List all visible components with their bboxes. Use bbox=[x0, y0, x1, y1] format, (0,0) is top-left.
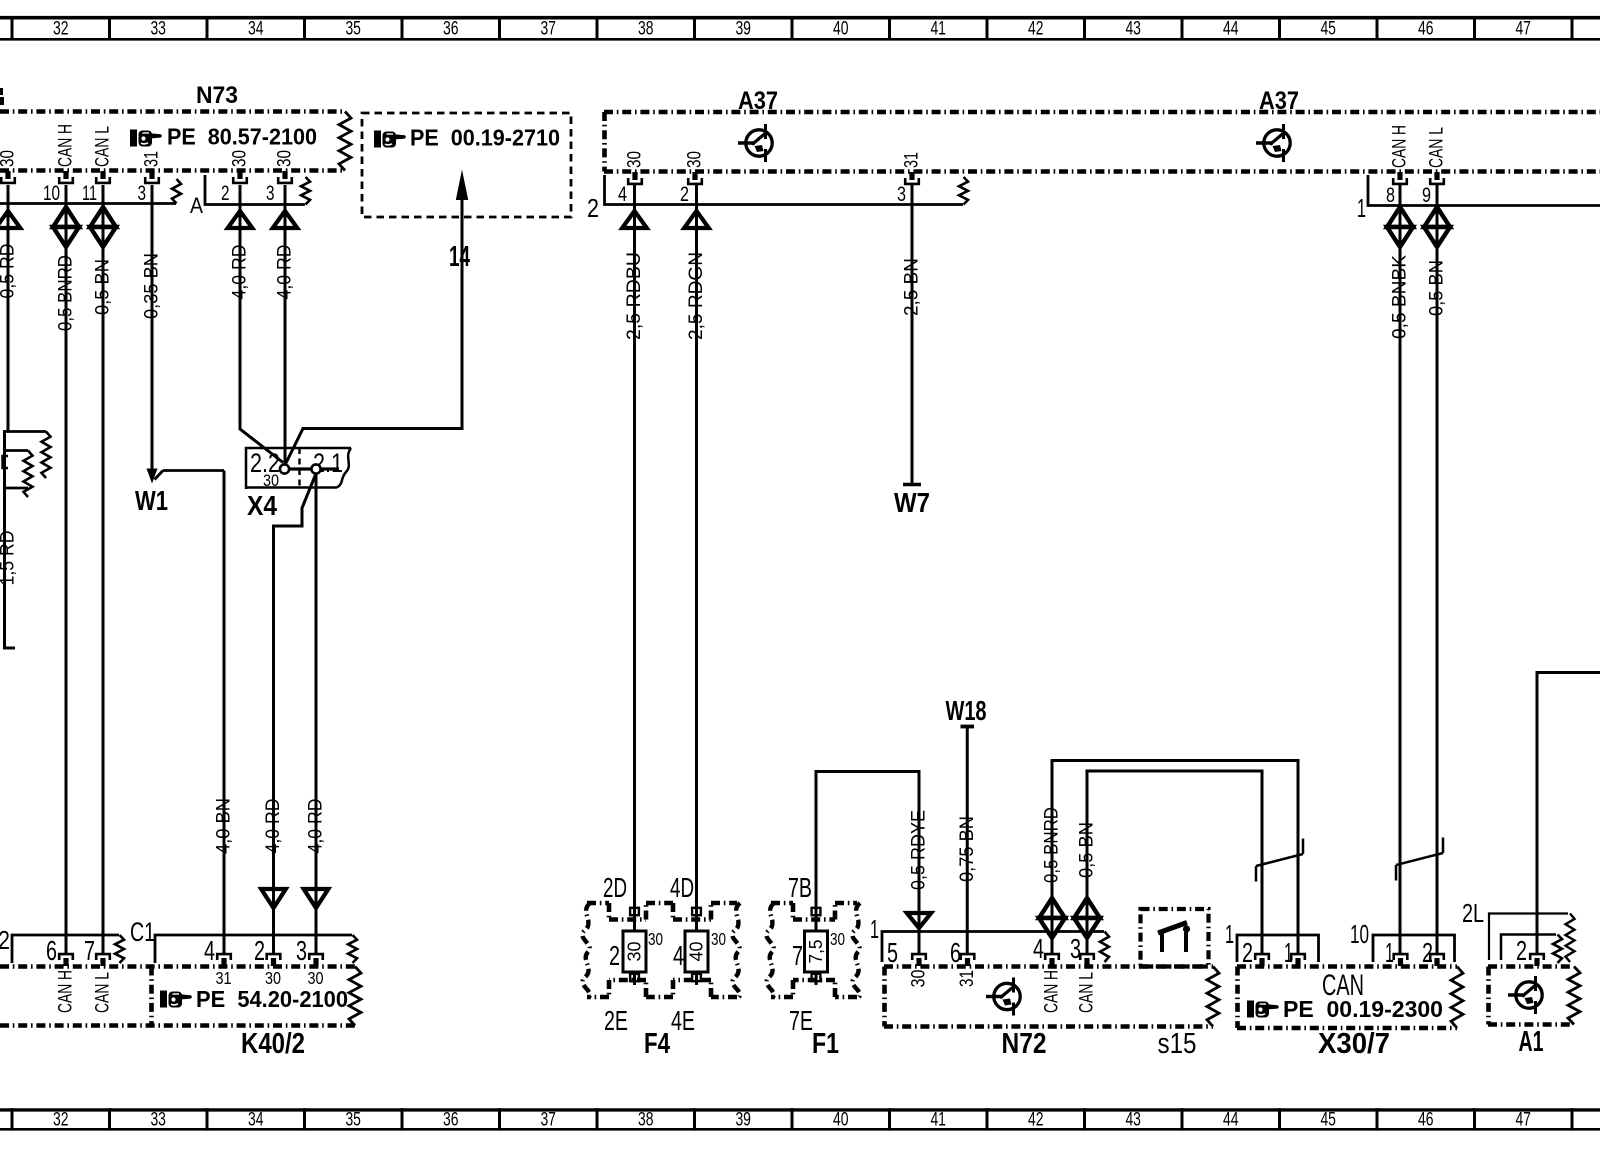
fuse F4 40A (4D/4E) bbox=[670, 872, 726, 1036]
svg-text:3: 3 bbox=[266, 181, 275, 205]
svg-text:5: 5 bbox=[887, 937, 898, 968]
fuse block F1 outline bbox=[766, 903, 860, 997]
svg-text:34: 34 bbox=[248, 1109, 264, 1131]
svg-text:2: 2 bbox=[1242, 937, 1253, 968]
control unit A37 bbox=[604, 87, 1600, 172]
partial label at top left page edge bbox=[0, 88, 4, 105]
N73 pin terminal CAN L at x=103 bbox=[92, 126, 114, 183]
svg-text:N72: N72 bbox=[1002, 1028, 1047, 1060]
svg-text:CAN H: CAN H bbox=[55, 970, 77, 1013]
svg-text:0,5 BN: 0,5 BN bbox=[1426, 260, 1448, 316]
svg-text:2L: 2L bbox=[1462, 898, 1484, 928]
svg-text:40: 40 bbox=[687, 942, 707, 962]
X30/7 terminal pins bracket 1 bbox=[1255, 954, 1305, 966]
svg-text:30: 30 bbox=[263, 472, 279, 490]
svg-text:2: 2 bbox=[221, 181, 230, 205]
svg-text:44: 44 bbox=[1223, 18, 1239, 40]
svg-text:C1: C1 bbox=[130, 917, 155, 947]
svg-text:4: 4 bbox=[204, 935, 215, 966]
svg-text:6: 6 bbox=[46, 935, 57, 966]
N73 pin terminal 30 at x=285 bbox=[274, 150, 296, 183]
svg-text:s15: s15 bbox=[1158, 1028, 1197, 1060]
svg-text:31: 31 bbox=[216, 968, 232, 988]
svg-text:2: 2 bbox=[680, 182, 689, 206]
svg-text:4,0 BN: 4,0 BN bbox=[213, 798, 235, 854]
svg-text:30: 30 bbox=[684, 151, 706, 168]
wire 0,5 BN from A37 pin 9 to X30/7 bbox=[1424, 185, 1450, 954]
A37 pin numbers 4 2 3 8 9 bbox=[618, 182, 1431, 207]
svg-text:11: 11 bbox=[82, 181, 97, 205]
svg-text:31: 31 bbox=[901, 152, 923, 168]
svg-text:4,0 RD: 4,0 RD bbox=[229, 245, 251, 300]
K40/2 connector bracket C1 bbox=[12, 917, 155, 966]
svg-text:42: 42 bbox=[1028, 1109, 1044, 1131]
switch s15 bbox=[1141, 909, 1209, 1060]
svg-text:38: 38 bbox=[638, 1109, 654, 1131]
svg-text:36: 36 bbox=[443, 18, 459, 40]
CAN distributor X30/7 box bbox=[1237, 967, 1463, 1061]
svg-text:CAN L: CAN L bbox=[92, 126, 114, 167]
svg-text:35: 35 bbox=[345, 1109, 361, 1131]
top ruler bbox=[0, 16, 1600, 41]
svg-text:2,5 BN: 2,5 BN bbox=[901, 258, 923, 316]
svg-text:4D: 4D bbox=[670, 872, 694, 903]
svg-text:CAN L: CAN L bbox=[1426, 127, 1448, 168]
svg-text:1: 1 bbox=[1357, 193, 1366, 223]
svg-text:32: 32 bbox=[53, 18, 69, 40]
wire 14 to PE 00.19-2710 bbox=[286, 170, 470, 464]
svg-text:CAN H: CAN H bbox=[55, 124, 77, 167]
svg-text:43: 43 bbox=[1125, 18, 1141, 40]
svg-text:31: 31 bbox=[141, 151, 163, 167]
svg-text:30: 30 bbox=[308, 968, 324, 988]
fuse block F4 outline bbox=[582, 903, 740, 997]
svg-text:W7: W7 bbox=[894, 487, 930, 518]
svg-text:0,5 BN: 0,5 BN bbox=[1076, 822, 1098, 878]
svg-text:9: 9 bbox=[1422, 183, 1431, 207]
svg-text:4,0 RD: 4,0 RD bbox=[262, 799, 284, 854]
svg-text:CAN H: CAN H bbox=[1389, 125, 1411, 168]
svg-text:30: 30 bbox=[908, 969, 930, 987]
terminal block X4 bbox=[246, 448, 351, 521]
A37 pin terminal 30 at x=635 bbox=[624, 151, 646, 184]
wire 4,0 RD from N73 pin 3 to X4 bbox=[273, 185, 298, 464]
svg-text:47: 47 bbox=[1515, 18, 1531, 40]
svg-text:2: 2 bbox=[0, 925, 10, 955]
ground lead W18 bbox=[946, 695, 987, 954]
svg-text:30: 30 bbox=[265, 968, 281, 988]
K40/2 connector bracket (pins 4,2,3) bbox=[155, 935, 357, 966]
svg-text:30: 30 bbox=[624, 151, 646, 168]
svg-text:44: 44 bbox=[1223, 1109, 1239, 1131]
svg-text:1: 1 bbox=[1284, 937, 1293, 968]
svg-text:42: 42 bbox=[1028, 18, 1044, 40]
N73 connector bracket A bbox=[0, 179, 203, 218]
svg-text:33: 33 bbox=[150, 18, 166, 40]
svg-text:7: 7 bbox=[792, 940, 803, 971]
svg-text:30: 30 bbox=[229, 150, 251, 167]
svg-text:2: 2 bbox=[609, 940, 620, 971]
wire 0,5 BNRD CAN H from N72 pin 4 to X30/7 bbox=[1039, 761, 1298, 954]
N73 pin terminal 31 at x=152 bbox=[141, 151, 163, 183]
N73 connector bracket (pins 2,3) bbox=[205, 175, 310, 205]
svg-text:A1: A1 bbox=[1519, 1026, 1544, 1058]
N72 pin terminal CAN L bbox=[1076, 954, 1098, 1013]
svg-text:33: 33 bbox=[150, 1109, 166, 1131]
wire 0,5 BN CAN L from N72 pin 3 to X30/7 bbox=[1074, 771, 1262, 954]
N72 pin terminal 30 bbox=[908, 954, 930, 987]
bottom ruler bbox=[0, 1108, 1600, 1130]
off-page connector stubs at left edge bbox=[3, 432, 51, 498]
svg-text:N73: N73 bbox=[196, 82, 238, 109]
svg-text:30: 30 bbox=[0, 150, 19, 167]
svg-text:34: 34 bbox=[248, 18, 264, 40]
svg-text:4E: 4E bbox=[671, 1005, 695, 1036]
N73 pin numbers 10 11 3 2 3 bbox=[43, 181, 275, 205]
ground point W1 bbox=[135, 469, 224, 517]
svg-text:41: 41 bbox=[930, 1109, 946, 1131]
svg-text:PE 00.19-2300: PE 00.19-2300 bbox=[1283, 996, 1443, 1022]
wire 0,5 BNRD (CAN H) from N73 pin 10 to K40/2 pin 6 bbox=[53, 185, 79, 954]
svg-text:36: 36 bbox=[443, 1109, 459, 1131]
svg-text:2: 2 bbox=[1422, 937, 1433, 968]
svg-text:0,75 BN: 0,75 BN bbox=[956, 816, 978, 882]
wire 0,5 RD from N73 pin 30 bbox=[0, 185, 20, 432]
svg-text:30: 30 bbox=[274, 150, 296, 167]
N72 pin numbers 5 6 4 3 bbox=[887, 933, 1081, 968]
A37 pin terminal CAN H at x=1400 bbox=[1389, 125, 1411, 184]
svg-text:K40/2: K40/2 bbox=[241, 1028, 305, 1060]
svg-text:4: 4 bbox=[673, 940, 684, 971]
svg-text:43: 43 bbox=[1125, 1109, 1141, 1131]
svg-text:8: 8 bbox=[1386, 183, 1395, 207]
wire 1,5 RD at left edge bbox=[0, 432, 19, 649]
svg-text:0,5 RD: 0,5 RD bbox=[0, 244, 19, 299]
K40/2 pin terminal CAN L bbox=[92, 954, 114, 1013]
svg-text:CAN L: CAN L bbox=[1076, 972, 1098, 1013]
K40/2 pin terminals 31 30 30 bbox=[216, 954, 324, 988]
svg-text:3: 3 bbox=[138, 181, 147, 205]
svg-text:40: 40 bbox=[833, 1109, 849, 1131]
N72 pin terminal 31 bbox=[956, 954, 978, 987]
svg-text:PE 54.20-2100: PE 54.20-2100 bbox=[196, 986, 348, 1012]
svg-text:A: A bbox=[190, 193, 203, 218]
svg-text:0,5 BN: 0,5 BN bbox=[92, 259, 114, 315]
N73 pin terminal CAN H at x=66 bbox=[55, 124, 77, 183]
svg-text:46: 46 bbox=[1418, 1109, 1434, 1131]
svg-text:40: 40 bbox=[833, 18, 849, 40]
ground point W7 bbox=[894, 485, 930, 519]
svg-text:38: 38 bbox=[638, 18, 654, 40]
svg-text:0,5 BNRD: 0,5 BNRD bbox=[55, 255, 77, 331]
svg-text:W18: W18 bbox=[946, 695, 987, 726]
svg-text:0,5 RDYE: 0,5 RDYE bbox=[908, 810, 930, 890]
twisted pair marking right bbox=[1396, 838, 1443, 881]
K40/2 partial pin label 2 at page edge bbox=[0, 925, 10, 955]
svg-text:7E: 7E bbox=[789, 1005, 813, 1036]
svg-text:2E: 2E bbox=[604, 1005, 628, 1036]
svg-text:0,5 BNRD: 0,5 BNRD bbox=[1041, 807, 1063, 883]
svg-text:CAN L: CAN L bbox=[92, 972, 114, 1013]
svg-text:2,5 RDBU: 2,5 RDBU bbox=[623, 252, 645, 340]
X30/7 terminal pins bracket 10 bbox=[1394, 954, 1444, 966]
svg-text:37: 37 bbox=[540, 1109, 556, 1131]
fuse F4 30A (2D/2E) bbox=[603, 872, 663, 1036]
svg-text:10: 10 bbox=[43, 181, 60, 205]
svg-text:3: 3 bbox=[296, 935, 307, 966]
svg-text:30: 30 bbox=[648, 929, 663, 949]
N73 pin terminal 30 at x=240 bbox=[229, 150, 251, 183]
svg-text:2D: 2D bbox=[603, 872, 627, 903]
svg-text:X4: X4 bbox=[247, 490, 277, 521]
svg-text:2: 2 bbox=[1516, 935, 1527, 966]
svg-text:4: 4 bbox=[618, 182, 627, 206]
svg-text:39: 39 bbox=[735, 18, 751, 40]
fuse and relay module K40/2 box bbox=[0, 967, 361, 1061]
wire 0,5 BNBK from A37 pin 8 to X30/7 bbox=[1387, 185, 1413, 954]
svg-text:F4: F4 bbox=[644, 1028, 670, 1060]
svg-text:F1: F1 bbox=[812, 1028, 839, 1060]
svg-text:7: 7 bbox=[84, 935, 95, 966]
wire 4,0 RD from X4 terminal 30 to K40/2 pin 2 bbox=[261, 474, 316, 954]
A37 pin terminal 30 at x=695 bbox=[684, 151, 706, 184]
wire 0,35 BN from N73 pin 3 to ground W1 bbox=[141, 185, 163, 471]
svg-text:1: 1 bbox=[1225, 919, 1234, 949]
svg-text:10: 10 bbox=[1350, 919, 1369, 949]
svg-text:2: 2 bbox=[587, 193, 599, 223]
svg-text:7B: 7B bbox=[788, 872, 812, 903]
svg-text:4,0 RD: 4,0 RD bbox=[305, 799, 327, 854]
svg-text:2: 2 bbox=[254, 935, 265, 966]
svg-text:30: 30 bbox=[830, 929, 845, 949]
svg-text:46: 46 bbox=[1418, 18, 1434, 40]
A37 pin terminal CAN L at x=1437 bbox=[1426, 127, 1448, 184]
N73 pin terminal 30 at x=8 bbox=[0, 150, 19, 183]
instrument cluster A1 connector 2L bbox=[1462, 898, 1575, 966]
svg-text:0,5 BNBK: 0,5 BNBK bbox=[1389, 255, 1411, 339]
reference box PE 00.19-2710 bbox=[362, 113, 571, 217]
svg-text:35: 35 bbox=[345, 18, 361, 40]
svg-text:47: 47 bbox=[1515, 1109, 1531, 1131]
svg-text:4,0 RD: 4,0 RD bbox=[274, 245, 296, 300]
twisted pair marking left bbox=[1256, 839, 1303, 882]
svg-text:30: 30 bbox=[625, 942, 645, 962]
svg-text:39: 39 bbox=[735, 1109, 751, 1131]
wire 4,0 RD from N73 pin 2 to X4 bbox=[228, 185, 283, 463]
wire 0,5 RDYE from fuse F1 to N72 pin 5 bbox=[816, 772, 931, 954]
A37 connector bracket 2 bbox=[587, 175, 968, 223]
svg-text:X30/7: X30/7 bbox=[1318, 1028, 1390, 1060]
svg-text:PE 00.19-2710: PE 00.19-2710 bbox=[410, 125, 560, 151]
svg-text:32: 32 bbox=[53, 1109, 69, 1131]
svg-text:3: 3 bbox=[897, 182, 906, 206]
fuse F1 7,5A (7B/7E) bbox=[788, 872, 845, 1036]
wire 4,0 RD from X4 to K40/2 pin 3 bbox=[304, 474, 329, 954]
wire 2,5 BN from A37 pin 3 to ground W7 bbox=[901, 185, 923, 483]
wire 0,5 BN (CAN L) from N73 pin 11 to K40/2 pin 7 bbox=[90, 185, 116, 954]
control unit N73 bbox=[0, 82, 351, 171]
svg-text:7,5: 7,5 bbox=[806, 940, 826, 964]
X30/7 connector bracket 1 bbox=[1225, 919, 1319, 968]
svg-text:4: 4 bbox=[1033, 933, 1044, 964]
svg-text:PE 80.57-2100: PE 80.57-2100 bbox=[167, 124, 317, 150]
wire 2,5 RDGN from A37 pin 2 to fuse F4 4D bbox=[684, 185, 709, 915]
svg-text:0,35 BN: 0,35 BN bbox=[141, 253, 163, 319]
svg-text:1,5 RD: 1,5 RD bbox=[0, 531, 19, 586]
wire 2,5 RDBU from A37 pin 4 to fuse F4 2D bbox=[622, 185, 647, 915]
svg-text:1: 1 bbox=[870, 914, 879, 944]
wire 4,0 BN from W1 to K40/2 pin 4 bbox=[213, 471, 235, 954]
svg-text:14: 14 bbox=[449, 241, 470, 273]
A37 pin terminal 31 at x=912 bbox=[901, 152, 923, 184]
wire to A1 pin 2 bbox=[1530, 673, 1600, 967]
K40/2 pin terminal CAN H bbox=[55, 954, 77, 1013]
svg-text:CAN H: CAN H bbox=[1041, 970, 1063, 1013]
svg-text:45: 45 bbox=[1320, 1109, 1336, 1131]
svg-text:6: 6 bbox=[950, 937, 961, 968]
svg-text:W1: W1 bbox=[135, 485, 168, 516]
svg-text:1: 1 bbox=[1385, 937, 1394, 968]
svg-text:2,5 RDGN: 2,5 RDGN bbox=[685, 252, 707, 340]
N72 pin terminal CAN H bbox=[1041, 954, 1063, 1013]
svg-text:41: 41 bbox=[930, 18, 946, 40]
N72 box bbox=[884, 967, 1219, 1061]
A37 connector bracket 1 bbox=[1357, 175, 1600, 223]
relay module N72 connector bracket 1 bbox=[870, 914, 1109, 962]
instrument cluster A1 box bbox=[1488, 967, 1580, 1059]
svg-text:45: 45 bbox=[1320, 18, 1336, 40]
X30/7 connector bracket 10 bbox=[1350, 919, 1455, 968]
svg-text:30: 30 bbox=[711, 929, 726, 949]
svg-text:31: 31 bbox=[956, 970, 978, 987]
svg-text:37: 37 bbox=[540, 18, 556, 40]
